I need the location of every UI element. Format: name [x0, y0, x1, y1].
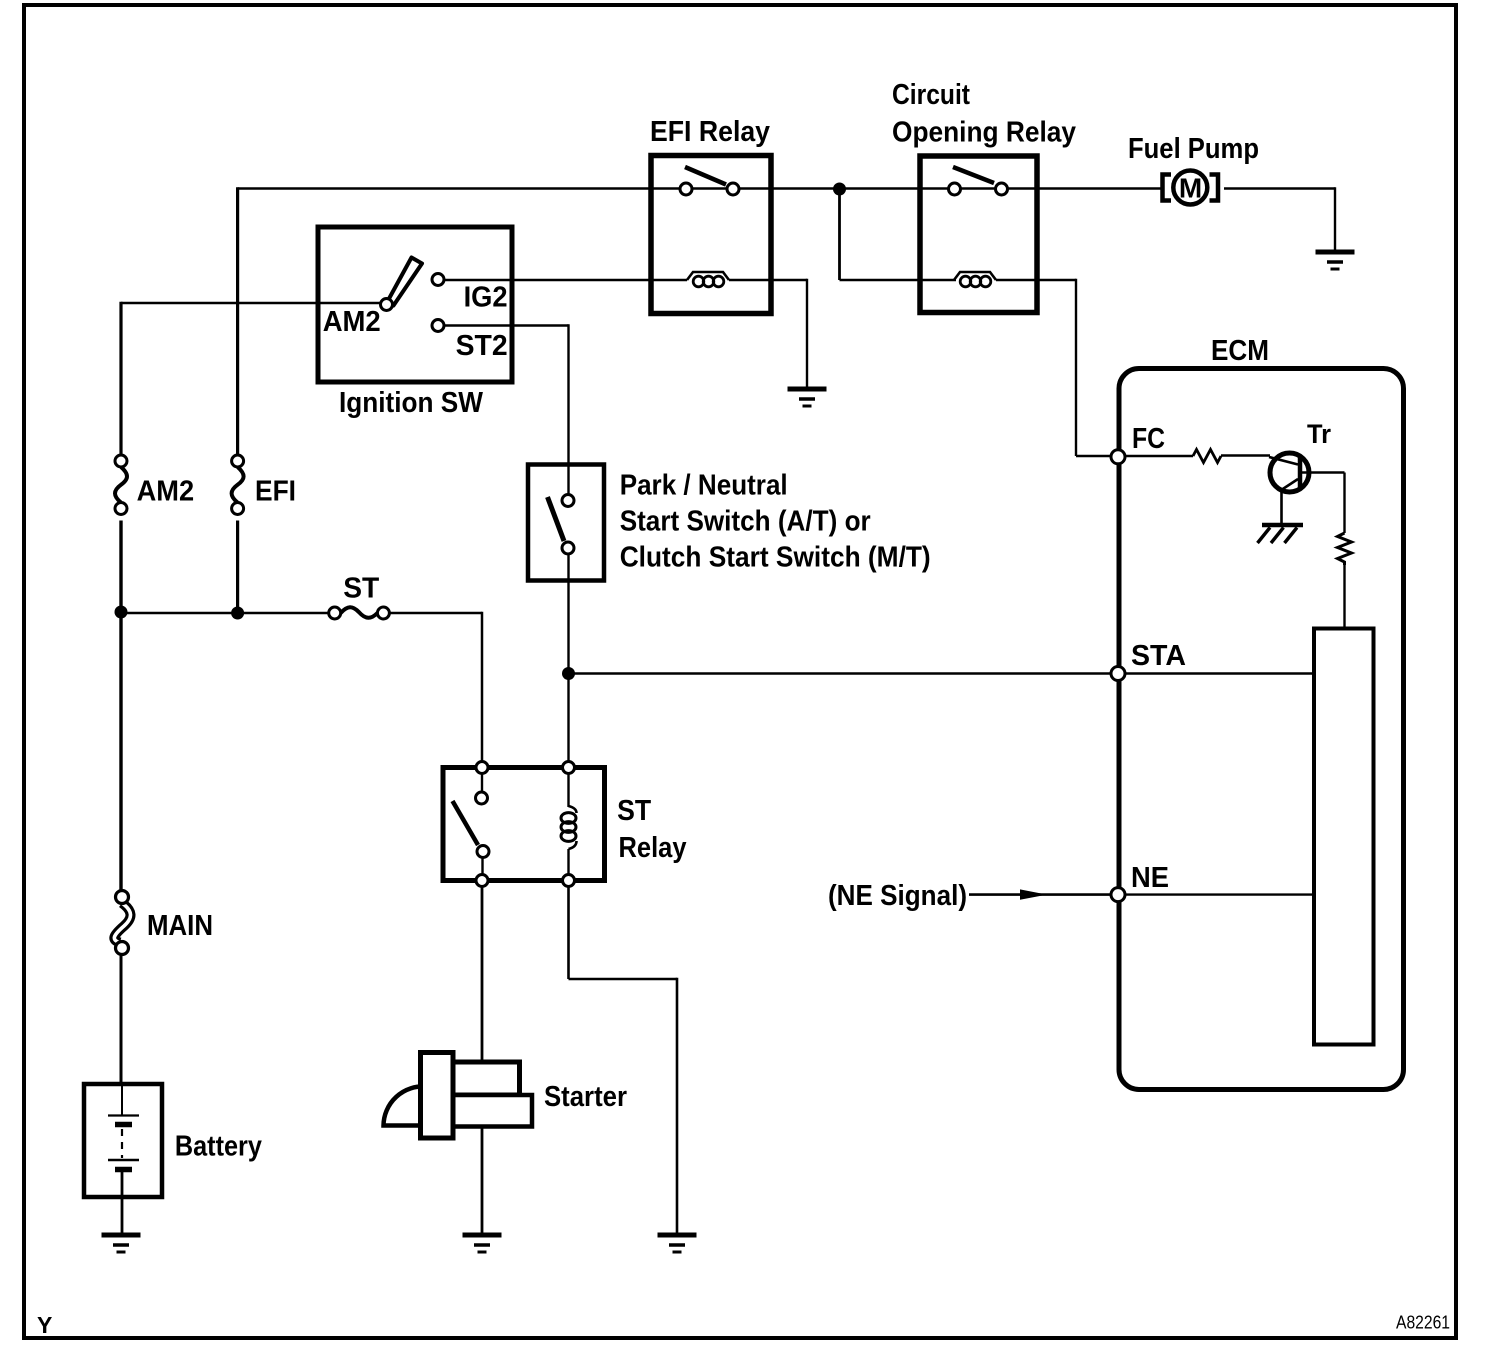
svg-text:M: M: [1179, 173, 1202, 204]
svg-text:Relay: Relay: [619, 832, 687, 864]
svg-text:Start Switch (A/T) or: Start Switch (A/T) or: [620, 506, 871, 538]
svg-text:Fuel Pump: Fuel Pump: [1128, 133, 1259, 165]
svg-text:Clutch Start Switch (M/T): Clutch Start Switch (M/T): [620, 542, 931, 574]
svg-text:A82261: A82261: [1396, 1313, 1450, 1333]
svg-text:ST: ST: [617, 795, 651, 827]
svg-text:EFI Relay: EFI Relay: [650, 116, 770, 148]
svg-text:Starter: Starter: [544, 1081, 627, 1113]
svg-text:Opening Relay: Opening Relay: [892, 117, 1076, 149]
svg-text:Y: Y: [37, 1312, 52, 1338]
svg-text:AM2: AM2: [323, 306, 381, 338]
svg-text:NE: NE: [1131, 862, 1169, 894]
svg-text:EFI: EFI: [255, 475, 296, 507]
svg-text:MAIN: MAIN: [147, 910, 213, 942]
svg-text:Circuit: Circuit: [892, 79, 970, 111]
svg-text:Battery: Battery: [175, 1130, 262, 1162]
svg-text:Ignition SW: Ignition SW: [339, 387, 484, 419]
svg-text:(NE Signal): (NE Signal): [828, 880, 967, 912]
svg-text:Tr: Tr: [1307, 419, 1331, 449]
svg-text:ECM: ECM: [1211, 335, 1269, 367]
svg-text:IG2: IG2: [464, 282, 508, 314]
svg-text:STA: STA: [1131, 640, 1186, 672]
svg-text:ST2: ST2: [456, 330, 508, 362]
svg-text:FC: FC: [1132, 423, 1165, 455]
svg-text:Park / Neutral: Park / Neutral: [620, 470, 788, 502]
svg-text:ST: ST: [343, 572, 379, 604]
svg-text:AM2: AM2: [137, 475, 195, 507]
